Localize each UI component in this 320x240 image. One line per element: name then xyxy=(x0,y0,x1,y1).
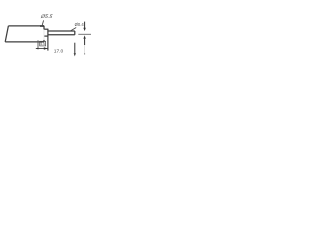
svg-text:5.0: 5.0 xyxy=(40,42,45,46)
svg-text:Ø5.5: Ø5.5 xyxy=(39,14,52,20)
svg-text:17.0: 17.0 xyxy=(54,49,64,55)
svg-text:Ø0.4: Ø0.4 xyxy=(75,22,85,27)
